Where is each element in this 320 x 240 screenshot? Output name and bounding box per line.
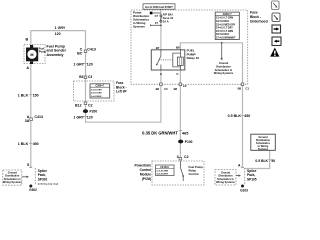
svg-text:C2=BLU: C2=BLU [160, 167, 169, 169]
svg-text:0.5 BLK: 0.5 BLK [228, 114, 242, 118]
svg-text:465: 465 [182, 131, 189, 136]
svg-text:0.35 DK GRN/WHT: 0.35 DK GRN/WHT [142, 131, 178, 136]
svg-text:(ordering may vary): (ordering may vary) [38, 184, 59, 186]
svg-text:C413: C413 [87, 48, 96, 52]
svg-text:120: 120 [55, 32, 61, 36]
svg-text:C3: C3 [164, 87, 168, 91]
svg-text:C1: C1 [246, 86, 250, 90]
svg-text:A: A [160, 72, 163, 76]
svg-text:C413: C413 [34, 115, 43, 119]
svg-text:150: 150 [33, 93, 39, 97]
svg-text:B6: B6 [176, 46, 180, 50]
svg-text:Pump: Pump [39, 50, 47, 54]
svg-text:450: 450 [244, 114, 250, 118]
svg-text:Powertrain: Powertrain [135, 164, 152, 168]
svg-text:SP105: SP105 [247, 177, 257, 181]
svg-text:Fuse: Fuse [250, 11, 258, 15]
svg-text:C2: C2 [183, 84, 187, 88]
svg-text:Control: Control [189, 172, 199, 176]
svg-text:P200: P200 [90, 110, 98, 114]
svg-text:M: M [30, 53, 33, 57]
svg-text:1 GRY: 1 GRY [73, 63, 84, 67]
svg-text:1=0.8 GRY: 1=0.8 GRY [91, 89, 102, 91]
svg-text:C: C [176, 72, 179, 76]
svg-text:F7: F7 [155, 21, 159, 25]
svg-text:C2: C2 [88, 104, 93, 108]
svg-text:G302: G302 [29, 188, 37, 192]
svg-text:Systems: Systems [133, 25, 145, 29]
svg-text:1 BLK: 1 BLK [18, 142, 29, 146]
svg-text:3=0.35 WHT: 3=0.35 WHT [156, 173, 168, 175]
svg-text:B: B [26, 38, 29, 42]
svg-text:Underhood: Underhood [250, 20, 268, 24]
svg-text:A: A [26, 66, 29, 70]
svg-text:0.5 BLK: 0.5 BLK [255, 159, 268, 163]
svg-text:50: 50 [271, 159, 275, 163]
svg-text:B8: B8 [174, 87, 178, 91]
svg-text:SP302: SP302 [38, 177, 48, 181]
svg-text:Block -: Block - [250, 15, 261, 19]
svg-text:Assembly: Assembly [47, 53, 64, 57]
svg-text:Relay 10: Relay 10 [187, 56, 200, 60]
svg-text:3=0.8 BLK: 3=0.8 BLK [91, 96, 102, 98]
svg-text:120: 120 [87, 63, 93, 67]
svg-text:Hot In RUN And START: Hot In RUN And START [145, 6, 173, 9]
svg-text:120: 120 [87, 115, 93, 119]
svg-text:2=0.8 GRY: 2=0.8 GRY [91, 93, 102, 95]
svg-text:A: A [238, 164, 241, 168]
svg-text:G103: G103 [240, 189, 248, 193]
svg-text:Wiring Systems: Wiring Systems [214, 71, 234, 75]
svg-text:1 GRY: 1 GRY [55, 26, 66, 30]
svg-text:S: S [27, 163, 30, 167]
svg-text:Wiring Systems: Wiring Systems [216, 181, 235, 184]
svg-text:1 BLK: 1 BLK [18, 93, 29, 97]
svg-text:B8: B8 [156, 87, 160, 91]
svg-text:3: 3 [177, 155, 179, 159]
svg-text:P100: P100 [185, 140, 193, 144]
svg-text:10 A: 10 A [163, 20, 169, 24]
svg-text:Left I/P: Left I/P [116, 90, 127, 94]
svg-text:BC: BC [77, 51, 83, 55]
svg-text:(PCM): (PCM) [142, 177, 151, 181]
svg-text:B12: B12 [75, 104, 82, 108]
svg-text:Systems: Systems [258, 148, 269, 151]
svg-text:Control: Control [140, 168, 151, 172]
svg-text:Wiring Systems: Wiring Systems [3, 181, 22, 184]
svg-text:B7: B7 [156, 46, 160, 50]
svg-text:C240=?: C240=? [223, 13, 232, 16]
svg-text:1 GRY: 1 GRY [73, 115, 84, 119]
svg-text:B3: B3 [79, 75, 83, 79]
svg-text:Module: Module [140, 173, 151, 177]
svg-text:450: 450 [33, 142, 39, 146]
svg-text:C3: C3 [88, 75, 92, 79]
svg-text:B8: B8 [238, 86, 242, 90]
svg-text:C7: C7 [155, 14, 159, 18]
svg-text:1=0.35 GRN: 1=0.35 GRN [156, 170, 168, 172]
svg-text:3A: 3A [25, 119, 30, 123]
svg-text:C7=0.8 BRN/WHT: C7=0.8 BRN/WHT [216, 37, 236, 40]
svg-text:C2: C2 [184, 155, 189, 159]
svg-text:C200=?: C200=? [96, 85, 105, 88]
